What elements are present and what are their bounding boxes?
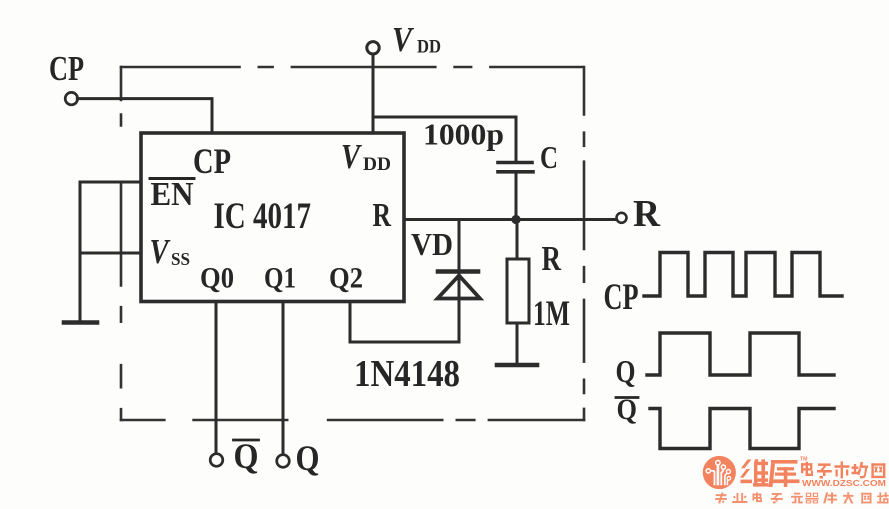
ground for resistor R1 (497, 363, 537, 368)
svg-text:SS: SS (171, 249, 190, 269)
svg-text:1000p: 1000p (423, 117, 504, 152)
svg-text:1M: 1M (533, 293, 570, 333)
svg-text:EN: EN (151, 176, 194, 213)
svg-text:V: V (150, 232, 171, 271)
overline of bottom NOT-Q label (234, 439, 259, 442)
svg-text:Q: Q (234, 436, 259, 476)
svg-text:Q: Q (617, 393, 638, 426)
wire resistor R1 to ground (516, 323, 519, 363)
wire VSS pin to left rail (80, 252, 141, 255)
svg-text:TM: TM (800, 457, 808, 463)
output terminal NOT-Q (210, 454, 223, 467)
capacitor C top plate (498, 161, 532, 165)
svg-text:R: R (633, 193, 661, 235)
diode VD cathode bar (438, 269, 478, 274)
output terminal Q (277, 455, 290, 468)
resistor R1 1M body (507, 259, 529, 323)
wire diode VD anode to Q2 pin (350, 300, 459, 342)
svg-text:Q: Q (296, 438, 320, 478)
overline of waveform NOT-Q label (616, 396, 638, 399)
wire Q0 pin to NOT-Q terminal (215, 303, 218, 453)
wire CP input to IC (77, 99, 212, 133)
svg-text:WWW.DZSC.COM: WWW.DZSC.COM (802, 478, 886, 488)
svg-text:1N4148: 1N4148 (354, 353, 460, 395)
diode VD triangle (438, 276, 481, 299)
junction node dot (511, 215, 520, 224)
wire left rail vertical (79, 182, 82, 321)
svg-text:R: R (542, 239, 562, 278)
input terminal CP (65, 92, 77, 104)
svg-text:VD: VD (411, 226, 453, 262)
IC 4017 box U1 (141, 133, 404, 302)
logo slogan row (715, 492, 889, 503)
wire R line from IC R pin to terminal (405, 218, 616, 221)
wire node to resistor R1 (516, 220, 519, 260)
svg-text:CP: CP (193, 141, 231, 181)
wire Q1 pin to Q terminal (282, 303, 285, 454)
logo character KU (769, 460, 800, 487)
wire VDD branch to capacitor C (373, 117, 516, 161)
power terminal VDD (367, 42, 379, 54)
svg-text:DD: DD (363, 155, 391, 175)
wire VDD terminal to IC VDD pin (372, 54, 375, 133)
logo circle icon (703, 456, 736, 489)
svg-text:R: R (373, 197, 392, 234)
svg-text:DD: DD (417, 37, 441, 58)
svg-text:C: C (540, 139, 558, 175)
logo text DIAN ZI SHI CHANG WANG (801, 461, 885, 478)
wire capacitor to node R (515, 174, 518, 220)
svg-text:CP: CP (49, 49, 84, 88)
svg-text:Q0: Q0 (200, 262, 234, 295)
wire R line to diode VD cathode (458, 220, 461, 301)
svg-text:Q: Q (616, 353, 636, 389)
ground for left rail (64, 320, 97, 325)
dashed enable box top edge (121, 66, 584, 69)
logo character WEI (740, 459, 769, 486)
capacitor C bottom plate (498, 170, 533, 174)
svg-text:V: V (392, 20, 414, 59)
wire EN pin to left rail (80, 181, 141, 184)
dashed enable box left edge (120, 67, 123, 420)
waveform trace NOT-Q (650, 409, 834, 449)
svg-text:CP: CP (604, 277, 639, 318)
dashed enable box right edge (583, 67, 586, 420)
waveform trace Q (647, 333, 834, 375)
svg-text:IC 4017: IC 4017 (214, 195, 312, 236)
overline of EN label (150, 177, 194, 180)
svg-text:V: V (341, 137, 362, 176)
dashed enable box bottom edge (121, 419, 584, 422)
output terminal R (617, 213, 627, 223)
svg-text:Q2: Q2 (329, 262, 363, 295)
waveform trace CP (644, 253, 842, 297)
svg-text:Q1: Q1 (264, 262, 296, 295)
